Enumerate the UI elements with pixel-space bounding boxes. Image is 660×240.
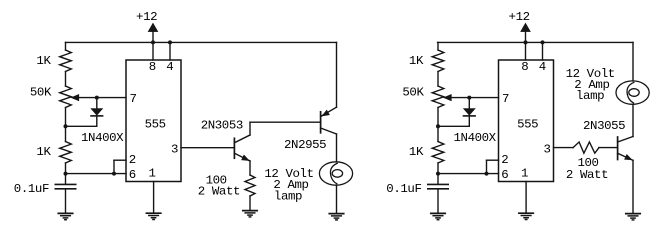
svg-text:4: 4 — [166, 60, 173, 74]
svg-text:0.1uF: 0.1uF — [386, 182, 421, 196]
svg-text:0.1uF: 0.1uF — [14, 182, 49, 196]
svg-text:555: 555 — [145, 117, 166, 131]
svg-text:1K: 1K — [409, 145, 424, 159]
svg-text:8: 8 — [521, 60, 528, 74]
svg-text:2N3055: 2N3055 — [583, 119, 625, 133]
svg-text:+12: +12 — [509, 10, 530, 24]
svg-text:8: 8 — [149, 60, 156, 74]
svg-text:3: 3 — [171, 142, 178, 156]
svg-text:7: 7 — [129, 92, 136, 106]
svg-text:2 Watt: 2 Watt — [198, 185, 240, 199]
svg-text:6: 6 — [129, 168, 136, 182]
svg-text:1N400X: 1N400X — [81, 131, 124, 145]
svg-text:1K: 1K — [36, 54, 51, 68]
svg-text:1K: 1K — [409, 54, 424, 68]
svg-text:lamp: lamp — [274, 190, 302, 204]
svg-text:1: 1 — [148, 166, 155, 180]
svg-text:2: 2 — [501, 153, 508, 167]
svg-text:+12: +12 — [136, 10, 157, 24]
svg-text:4: 4 — [539, 60, 546, 74]
svg-text:3: 3 — [543, 142, 550, 156]
svg-text:2N2955: 2N2955 — [284, 138, 326, 152]
svg-text:2: 2 — [129, 153, 136, 167]
svg-text:1K: 1K — [36, 145, 51, 159]
svg-text:2N3053: 2N3053 — [201, 119, 243, 133]
svg-text:7: 7 — [502, 92, 509, 106]
svg-text:555: 555 — [517, 117, 538, 131]
svg-text:2 Watt: 2 Watt — [566, 168, 608, 182]
svg-text:6: 6 — [501, 168, 508, 182]
svg-text:lamp: lamp — [576, 89, 604, 103]
svg-text:1: 1 — [521, 166, 528, 180]
svg-text:50K: 50K — [402, 85, 424, 99]
svg-text:50K: 50K — [30, 85, 52, 99]
svg-text:1N400X: 1N400X — [454, 131, 497, 145]
